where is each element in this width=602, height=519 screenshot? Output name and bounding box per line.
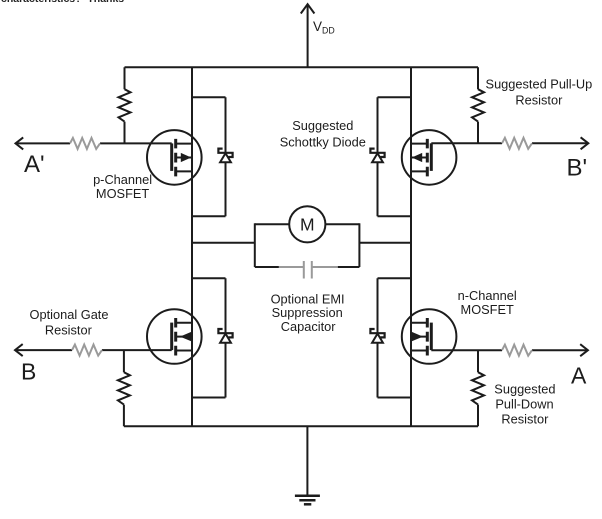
wire right pull-down branch [477,350,479,426]
wire bottom rail [124,425,478,427]
wire motor loop top edge [255,223,360,225]
svg-text:B: B [21,359,36,385]
svg-text:Schottky Diode: Schottky Diode [280,135,366,150]
wire top rail [125,66,479,68]
VDD arrowhead [301,4,315,13]
VDD stem wire [307,6,309,68]
resistor gate A (gray) [502,345,532,356]
arrowhead B [15,344,23,356]
wire gate pull-down branch left [123,350,125,426]
svg-text:M: M [300,215,315,235]
ground [295,496,320,505]
resistor gate A' (gray) [70,138,100,149]
diode D4 loop bottom-right [370,278,411,397]
diode D4 triangle [372,334,383,343]
resistor pull-down right [472,372,484,404]
svg-text:Suggested: Suggested [494,381,555,396]
resistor pull-up left [119,89,131,121]
svg-text:MOSFET: MOSFET [461,302,515,317]
transistor Q2 p-channel top-right [402,130,457,185]
wire motor loop left edge [254,223,256,267]
wire B [15,349,172,351]
diode D1 triangle [220,153,231,162]
svg-text:Capacitor: Capacitor [281,319,337,334]
diode D1 loop top-left [192,97,233,216]
svg-text:Suggested: Suggested [292,118,353,133]
capacitor C1 plates [304,261,312,279]
motor M1 [289,206,325,242]
transistor Q3 n-channel bottom-left [147,309,202,364]
svg-text:A': A' [24,151,45,178]
svg-text:A: A [571,363,587,389]
transistor Q4 n-channel bottom-right [402,309,457,364]
arrowhead A [580,344,588,356]
diode D2 triangle [372,153,383,162]
resistor gate B (gray) [72,345,102,356]
diode D2 schottky bar [370,149,384,157]
wire A [431,349,588,351]
resistor gate B' (gray) [502,138,532,149]
resistor pull-up right [472,89,484,121]
svg-text:VDD: VDD [313,19,335,36]
capacitor C1 gray section wires [70,138,532,356]
wire left drain rail [191,67,193,426]
wire right pull-up branch [477,67,479,143]
arrowhead B' [581,137,589,149]
svg-text:B': B' [567,155,588,182]
diode D4 schottky bar [370,329,384,337]
transistor Q1 p-channel top-left [147,130,202,185]
svg-text:Resistor: Resistor [515,93,563,108]
wire ground stem [306,426,308,496]
svg-text:Pull-Down: Pull-Down [495,396,553,411]
wire right drain rail [410,67,412,426]
svg-text:Resistor: Resistor [45,322,93,337]
wire B' [431,142,588,144]
resistor gate pull-down left [118,372,130,404]
diode D3 triangle [220,334,231,343]
diode D2 loop top-right [370,97,411,216]
truncated forum text top-left [1,0,124,5]
svg-text:Resistor: Resistor [501,411,549,426]
wire motor connector left [192,242,255,244]
diode D3 loop bottom-left [192,278,233,397]
diode D1 schottky bar [218,149,232,157]
wire A' [16,142,172,144]
svg-text:Suggested Pull-Up: Suggested Pull-Up [486,77,593,92]
wire motor loop right edge [358,223,360,267]
wire left pull-up branch [124,67,126,143]
arrowhead A' [16,137,24,149]
wire motor connector right [359,242,411,244]
svg-text:Suppression: Suppression [272,305,343,320]
svg-text:p-Channel: p-Channel [93,172,152,187]
wire motor loop bottom black segments [255,266,360,268]
svg-text:n-Channel: n-Channel [458,288,517,303]
diode D3 schottky bar [218,329,232,337]
svg-text:MOSFET: MOSFET [96,186,150,201]
svg-text:Optional Gate: Optional Gate [30,307,109,322]
